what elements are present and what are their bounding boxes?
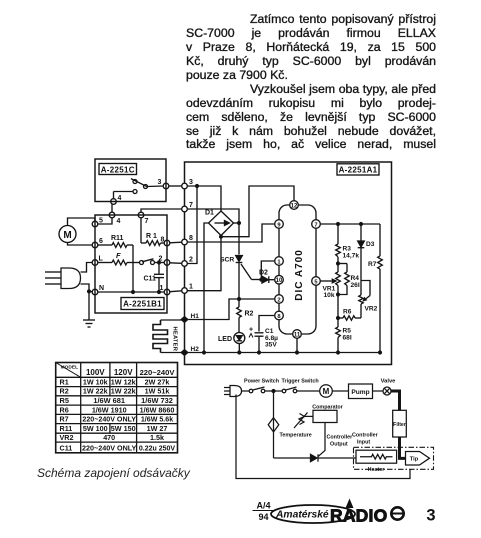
resistor R5 — [336, 295, 352, 354]
return wire loop — [236, 395, 410, 479]
issue fraction A/4 94 — [256, 501, 270, 522]
ground — [83, 290, 95, 327]
resistor R1 — [141, 218, 164, 246]
wire bus7 to node7 — [141, 209, 182, 212]
table row R6 — [60, 405, 175, 414]
node 2 left — [159, 256, 182, 266]
trigger switch — [265, 379, 320, 393]
svg-text:10: 10 — [276, 278, 283, 284]
node 8 left — [161, 237, 182, 246]
logo circle symbol — [391, 507, 403, 519]
caption — [37, 466, 190, 480]
svg-text:5W 100: 5W 100 — [83, 424, 108, 433]
svg-text:A-2251C: A-2251C — [101, 165, 135, 174]
svg-text:1/6W 732: 1/6W 732 — [141, 396, 173, 405]
svg-text:1W 12k: 1W 12k — [111, 377, 136, 386]
terminal 4 on A-2251C — [111, 195, 122, 204]
svg-text:1: 1 — [189, 284, 193, 291]
tip — [406, 452, 430, 466]
box A-2251A1 — [185, 162, 392, 365]
svg-text:Pump: Pump — [351, 389, 369, 396]
svg-text:VR2: VR2 — [60, 433, 74, 442]
switch S1 in A-2251C — [114, 179, 164, 199]
wire heater to H1 — [161, 319, 182, 321]
wire 7 to bridge right and SCR — [187, 209, 240, 255]
pin 7 — [312, 220, 321, 229]
resistor R4 — [338, 264, 360, 295]
pin 2 — [275, 295, 284, 304]
page number 3 — [426, 507, 435, 525]
power switch — [242, 378, 280, 393]
svg-text:A-2251B1: A-2251B1 — [123, 300, 162, 309]
bus terminal 2 — [182, 257, 193, 267]
svg-text:0.22u 250V: 0.22u 250V — [139, 445, 176, 452]
node 1 left — [160, 285, 182, 295]
SCR — [220, 256, 261, 308]
resistor R7 — [368, 224, 382, 354]
svg-text:R11: R11 — [111, 235, 124, 242]
svg-text:8: 8 — [161, 237, 165, 244]
motor M2 — [320, 385, 349, 398]
svg-text:R3: R3 — [343, 246, 352, 253]
valve — [381, 378, 397, 395]
svg-text:1/6W 1910: 1/6W 1910 — [92, 405, 127, 414]
resistor R3 — [336, 224, 360, 265]
svg-text:1W 27: 1W 27 — [147, 424, 168, 433]
svg-text:Controller: Controller — [352, 433, 379, 439]
node 4 on B1 — [109, 204, 120, 225]
fuse F — [98, 251, 140, 265]
table row VR2 — [60, 433, 165, 442]
temperature sensor — [268, 393, 312, 439]
svg-text:68I: 68I — [343, 334, 352, 341]
svg-text:35V: 35V — [265, 342, 277, 349]
svg-text:LED: LED — [218, 336, 232, 343]
thick tube filter to tip — [400, 437, 407, 458]
svg-text:R6: R6 — [60, 405, 69, 414]
svg-text:1: 1 — [160, 285, 164, 292]
switch S2 in B1 — [140, 259, 165, 265]
bus terminal 3 — [182, 179, 193, 189]
block diagram mains plug — [224, 386, 242, 397]
wire bridge bottom to terminal 1 — [187, 235, 222, 290]
wire pin 7 rail — [320, 223, 380, 226]
svg-text:12: 12 — [291, 204, 298, 210]
svg-text:RADIO: RADIO — [330, 506, 387, 526]
node 3 left — [158, 179, 182, 189]
node 5 — [92, 218, 103, 227]
svg-text:5W 150: 5W 150 — [111, 424, 136, 433]
svg-text:R5: R5 — [60, 396, 69, 405]
diode D2 — [259, 270, 274, 284]
svg-text:C11: C11 — [60, 443, 73, 452]
svg-text:M: M — [63, 230, 71, 241]
logo RADIO — [330, 499, 387, 526]
svg-text:26I: 26I — [351, 282, 360, 289]
table frame — [56, 363, 178, 453]
pin 11 — [293, 330, 302, 354]
controller input label — [352, 433, 379, 446]
IC U1 DIC A700 body — [279, 205, 316, 334]
svg-text:SCR: SCR — [220, 257, 234, 264]
potentiometer VR1 — [320, 264, 340, 300]
svg-text:R7: R7 — [368, 261, 377, 268]
wire bridge left to H2 — [203, 223, 209, 354]
svg-text:R6: R6 — [343, 309, 352, 316]
wire pin 8 to C1 — [259, 316, 274, 332]
pin 10 — [275, 275, 284, 284]
svg-text:DIC A700: DIC A700 — [294, 249, 305, 301]
svg-text:2: 2 — [277, 298, 280, 304]
svg-text:F: F — [116, 251, 121, 260]
svg-text:1W 10k: 1W 10k — [83, 377, 108, 386]
svg-text:470: 470 — [103, 433, 115, 442]
pin 1 — [275, 257, 284, 266]
terminal H2 — [181, 346, 199, 355]
svg-text:2W 27k: 2W 27k — [145, 377, 170, 386]
svg-text:VR2: VR2 — [365, 306, 378, 313]
svg-text:A-2251A1: A-2251A1 — [339, 166, 378, 175]
svg-text:Comparator: Comparator — [312, 405, 343, 411]
svg-text:100V: 100V — [86, 368, 105, 377]
svg-text:+: + — [249, 327, 253, 334]
heater element — [153, 320, 178, 353]
svg-text:3: 3 — [189, 179, 193, 186]
pin 9 — [275, 220, 284, 229]
bus terminal 1 — [182, 284, 193, 294]
svg-text:3: 3 — [426, 507, 435, 525]
logo oval — [271, 505, 355, 523]
svg-text:7: 7 — [314, 223, 317, 229]
svg-text:1W 22k: 1W 22k — [83, 387, 108, 396]
svg-text:D1: D1 — [205, 210, 214, 217]
svg-text:1.5k: 1.5k — [150, 433, 164, 442]
svg-text:120V: 120V — [114, 368, 133, 377]
svg-text:Temperature: Temperature — [280, 433, 312, 439]
thick tube valve to filter — [391, 391, 400, 411]
resistor R11 — [98, 235, 133, 292]
table row R2 — [60, 387, 170, 396]
comparator output to gate — [318, 423, 353, 457]
svg-text:8: 8 — [189, 235, 193, 242]
svg-text:R2: R2 — [245, 311, 254, 318]
pin 12 — [290, 201, 299, 210]
filter box — [393, 410, 407, 437]
svg-text:7: 7 — [189, 202, 193, 209]
wire 2 riser — [187, 186, 197, 264]
bus terminal 8 — [182, 235, 193, 245]
svg-text:Controller: Controller — [327, 435, 354, 441]
svg-text:HEATER: HEATER — [172, 327, 178, 352]
node N and bottom row — [92, 285, 164, 295]
svg-text:Trigger Switch: Trigger Switch — [282, 379, 319, 385]
H2 bottom wire — [188, 352, 380, 354]
wire 8 to pin 9 — [187, 224, 274, 242]
svg-text:D3: D3 — [366, 241, 375, 248]
svg-text:D2: D2 — [259, 270, 268, 277]
svg-text:1/6W 8660: 1/6W 8660 — [140, 405, 175, 414]
svg-text:L: L — [99, 256, 104, 263]
wire heater to H2 — [161, 352, 182, 354]
box A-2251C — [95, 159, 166, 202]
svg-text:11: 11 — [294, 333, 301, 339]
svg-text:Input: Input — [357, 440, 370, 446]
wire pin 2 to H1 — [188, 298, 274, 320]
node L — [92, 256, 103, 266]
svg-text:220~240V ONLY: 220~240V ONLY — [82, 416, 136, 424]
svg-text:4: 4 — [117, 218, 121, 225]
potentiometer VR2 — [359, 281, 378, 319]
svg-text:Valve: Valve — [381, 378, 397, 384]
svg-text:220~240V ONLY: 220~240V ONLY — [82, 443, 136, 452]
svg-text:Output: Output — [330, 442, 348, 448]
node 7 on B1 — [138, 212, 148, 225]
wire 3 to bridge — [187, 185, 221, 212]
table row C11 — [60, 443, 176, 452]
svg-text:220~240V: 220~240V — [140, 368, 176, 377]
svg-text:3: 3 — [158, 179, 162, 186]
wire bridge bottom to pin 12 — [221, 186, 294, 237]
svg-text:N: N — [99, 285, 104, 292]
svg-text:6: 6 — [99, 238, 103, 245]
table row R11 — [60, 424, 168, 433]
pump box — [349, 384, 383, 399]
capacitor C1 — [249, 327, 278, 354]
svg-text:1W 51k: 1W 51k — [145, 387, 170, 396]
thyristor Q — [274, 432, 357, 462]
svg-text:Power Switch: Power Switch — [244, 378, 279, 384]
motor M — [59, 218, 95, 245]
dashed iron assembly — [354, 447, 434, 469]
wire pin 1 — [261, 261, 274, 279]
diode D3 — [358, 224, 375, 295]
pin 8 — [275, 311, 284, 320]
svg-text:C11: C11 — [144, 276, 157, 283]
svg-text:10k: 10k — [324, 292, 335, 299]
svg-text:MODEL: MODEL — [61, 365, 78, 371]
svg-text:Filter: Filter — [393, 422, 406, 428]
svg-text:R 1: R 1 — [146, 233, 157, 240]
svg-text:M: M — [323, 387, 330, 396]
comparator box — [312, 405, 343, 423]
resistor R2 — [237, 307, 254, 332]
logo script Amatérské — [275, 510, 329, 521]
svg-text:4: 4 — [118, 195, 122, 202]
svg-text:Heater: Heater — [368, 467, 386, 473]
mains plug — [45, 263, 92, 292]
terminal H1 — [181, 313, 199, 322]
svg-text:7: 7 — [145, 218, 149, 225]
pin 5 — [312, 277, 321, 286]
svg-text:2: 2 — [189, 257, 193, 264]
table row R1 — [60, 377, 170, 386]
heater2 box — [356, 450, 397, 473]
svg-text:1W 22k: 1W 22k — [111, 387, 136, 396]
svg-text:94: 94 — [258, 512, 268, 522]
svg-text:Tip: Tip — [410, 457, 419, 463]
bus terminal 7 — [182, 202, 193, 212]
table row R7 — [60, 416, 174, 424]
thermistor — [294, 413, 313, 429]
svg-text:1/6W 681: 1/6W 681 — [93, 396, 125, 405]
capacitor C11 — [144, 261, 165, 292]
node 6 — [92, 238, 103, 248]
svg-text:R7: R7 — [60, 416, 69, 424]
top paragraph text — [186, 13, 436, 152]
svg-text:14,7k: 14,7k — [343, 253, 360, 260]
svg-text:1/6W 5.6k: 1/6W 5.6k — [141, 416, 173, 424]
svg-text:Amatérské: Amatérské — [275, 510, 329, 521]
table header row — [86, 368, 175, 377]
wire node5 to node4 — [98, 218, 112, 224]
bridge rectifier D1 — [205, 210, 234, 236]
box A-2251B1 — [95, 215, 167, 313]
svg-text:R2: R2 — [60, 387, 69, 396]
svg-text:R11: R11 — [60, 424, 73, 433]
LED — [218, 333, 245, 354]
table row R5 — [60, 396, 173, 405]
svg-text:A/4: A/4 — [256, 501, 270, 511]
svg-text:R1: R1 — [60, 377, 69, 386]
resistor R6 — [337, 309, 361, 321]
